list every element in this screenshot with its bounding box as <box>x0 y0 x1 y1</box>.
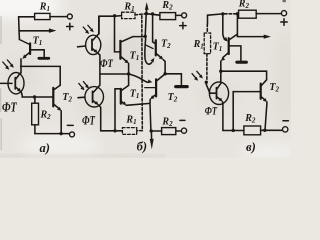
wire: base line to T2 (a) <box>22 96 53 98</box>
light arrows (v) <box>192 71 201 78</box>
wire to - terminal (v) <box>261 129 283 131</box>
node dot (v) <box>219 70 222 73</box>
- terminal (v) <box>283 127 288 132</box>
svg-text:ФТ: ФТ <box>100 58 114 70</box>
wire: horizontal to T2 collector (a) <box>21 66 61 85</box>
resistor R2 bottom (v) <box>244 126 261 135</box>
top-right edge mark <box>283 0 286 2</box>
ground bar (a) <box>39 57 49 60</box>
node dot right (b) <box>163 72 166 75</box>
resistor R1 bottom (b) dashed <box>122 128 136 135</box>
node dot (b) <box>113 14 116 17</box>
transistor T2 lower (b) <box>157 74 166 81</box>
wire: bottom rail (v) <box>223 130 244 132</box>
plus sign (v) <box>281 19 287 25</box>
cross arrow J-hook to T2 upper (b) <box>145 37 152 65</box>
+ terminal (v) <box>281 11 286 16</box>
transistor T1 (v) <box>228 38 230 54</box>
wire top to R2 (b) <box>146 14 160 16</box>
wire R2 to + (b) <box>176 14 182 16</box>
wire: bottom rail left (b) <box>101 130 123 132</box>
scan smudges <box>6 30 295 130</box>
plus sign (b) <box>180 22 186 28</box>
phototransistor FT (v) <box>209 82 228 105</box>
base branch T2 lower (b) <box>145 87 155 89</box>
svg-text:R2: R2 <box>238 0 250 10</box>
wire: bottom rail (a) <box>35 133 70 135</box>
up arrow (b) <box>146 8 148 13</box>
phototransistor FT (a) <box>8 73 24 94</box>
wire: top rail (v) <box>208 14 223 15</box>
node dot center (b) <box>127 72 130 75</box>
minus sign (b) <box>180 119 185 121</box>
plus sign (a) <box>67 23 73 29</box>
phototransistor FT2 (b) <box>85 87 104 107</box>
cross arrow to T2 lower (b) <box>129 74 148 82</box>
resistor R1 (v) dashed <box>207 15 209 24</box>
paper background <box>0 0 291 158</box>
wire R2 to + (v) <box>256 13 281 15</box>
wire: T1 collector horizontal (b) <box>133 36 145 38</box>
ground bar (v) <box>237 61 246 64</box>
svg-text:ФТ: ФТ <box>2 99 17 115</box>
light arrows (a) <box>3 60 12 68</box>
transistor T1 (a) <box>19 40 30 45</box>
svg-text:б): б) <box>137 140 147 154</box>
wire: center rail left (b) <box>100 73 129 75</box>
light corners <box>0 0 300 162</box>
svg-text:ФТ: ФТ <box>205 105 218 118</box>
resistor R2 top (v) <box>239 10 257 18</box>
minus sign (v) <box>283 120 288 122</box>
minus sign (a) <box>67 124 73 126</box>
wire: output arrow (a) <box>19 30 52 32</box>
+ terminal (a) <box>67 14 72 19</box>
light arrows FT2 (b) <box>79 82 87 88</box>
arrow to T1 base (v) <box>223 14 226 40</box>
+ terminal (b) <box>182 13 187 18</box>
wire: top rail (b) <box>99 16 122 34</box>
transistor T2 (v) <box>260 84 262 99</box>
transistor T2 (a) <box>52 88 54 107</box>
- terminal (b) <box>181 128 186 133</box>
svg-text:в): в) <box>246 140 256 154</box>
dashed link R1 top to R1 bottom (b) <box>137 16 142 131</box>
resistor R2 top (b) <box>160 13 176 20</box>
resistor R2 bottom (b) <box>162 128 176 135</box>
wire: bottom rail right (b) <box>151 130 162 132</box>
resistor R1 (a) <box>35 13 50 19</box>
phototransistor FT1 (b) <box>86 35 101 54</box>
wire: R1 to + terminal <box>50 16 67 18</box>
wire: left rail (a) <box>18 17 21 40</box>
wire: collector node link (b) <box>145 14 146 37</box>
output arrow (v) <box>237 14 264 37</box>
wire: node below T1 (a) <box>20 59 22 73</box>
resistor R2 (a) <box>34 97 36 103</box>
- terminal (a) <box>70 132 75 137</box>
wire: to T2 collector (v) <box>221 71 267 80</box>
node dot bottom (a) <box>59 132 62 135</box>
node dots on top wire (b) <box>145 12 148 15</box>
light arrows FT1 (b) <box>83 25 92 32</box>
transistor T2 upper (b) <box>153 14 156 44</box>
resistor R1 top (b) dashed <box>122 12 135 18</box>
ground (b) <box>165 74 181 85</box>
wire: top rail a <box>19 16 35 18</box>
left edge scan streaks <box>0 16 2 150</box>
transistor T1 lower (b) <box>115 88 120 90</box>
svg-text:а): а) <box>40 141 50 155</box>
svg-text:ФТ: ФТ <box>82 114 96 128</box>
node dot (a) <box>33 95 36 98</box>
dashed wire from R1 (b) <box>135 14 146 15</box>
wire: left vertical to bottom (b) <box>114 89 116 131</box>
wire R2 to - terminal (b) <box>176 130 182 132</box>
down arrow (b) <box>150 131 152 141</box>
dashed top wire (v) <box>225 13 237 15</box>
transistor T1 upper (b) <box>121 37 133 42</box>
base branch T2 upper (b) <box>145 45 153 49</box>
